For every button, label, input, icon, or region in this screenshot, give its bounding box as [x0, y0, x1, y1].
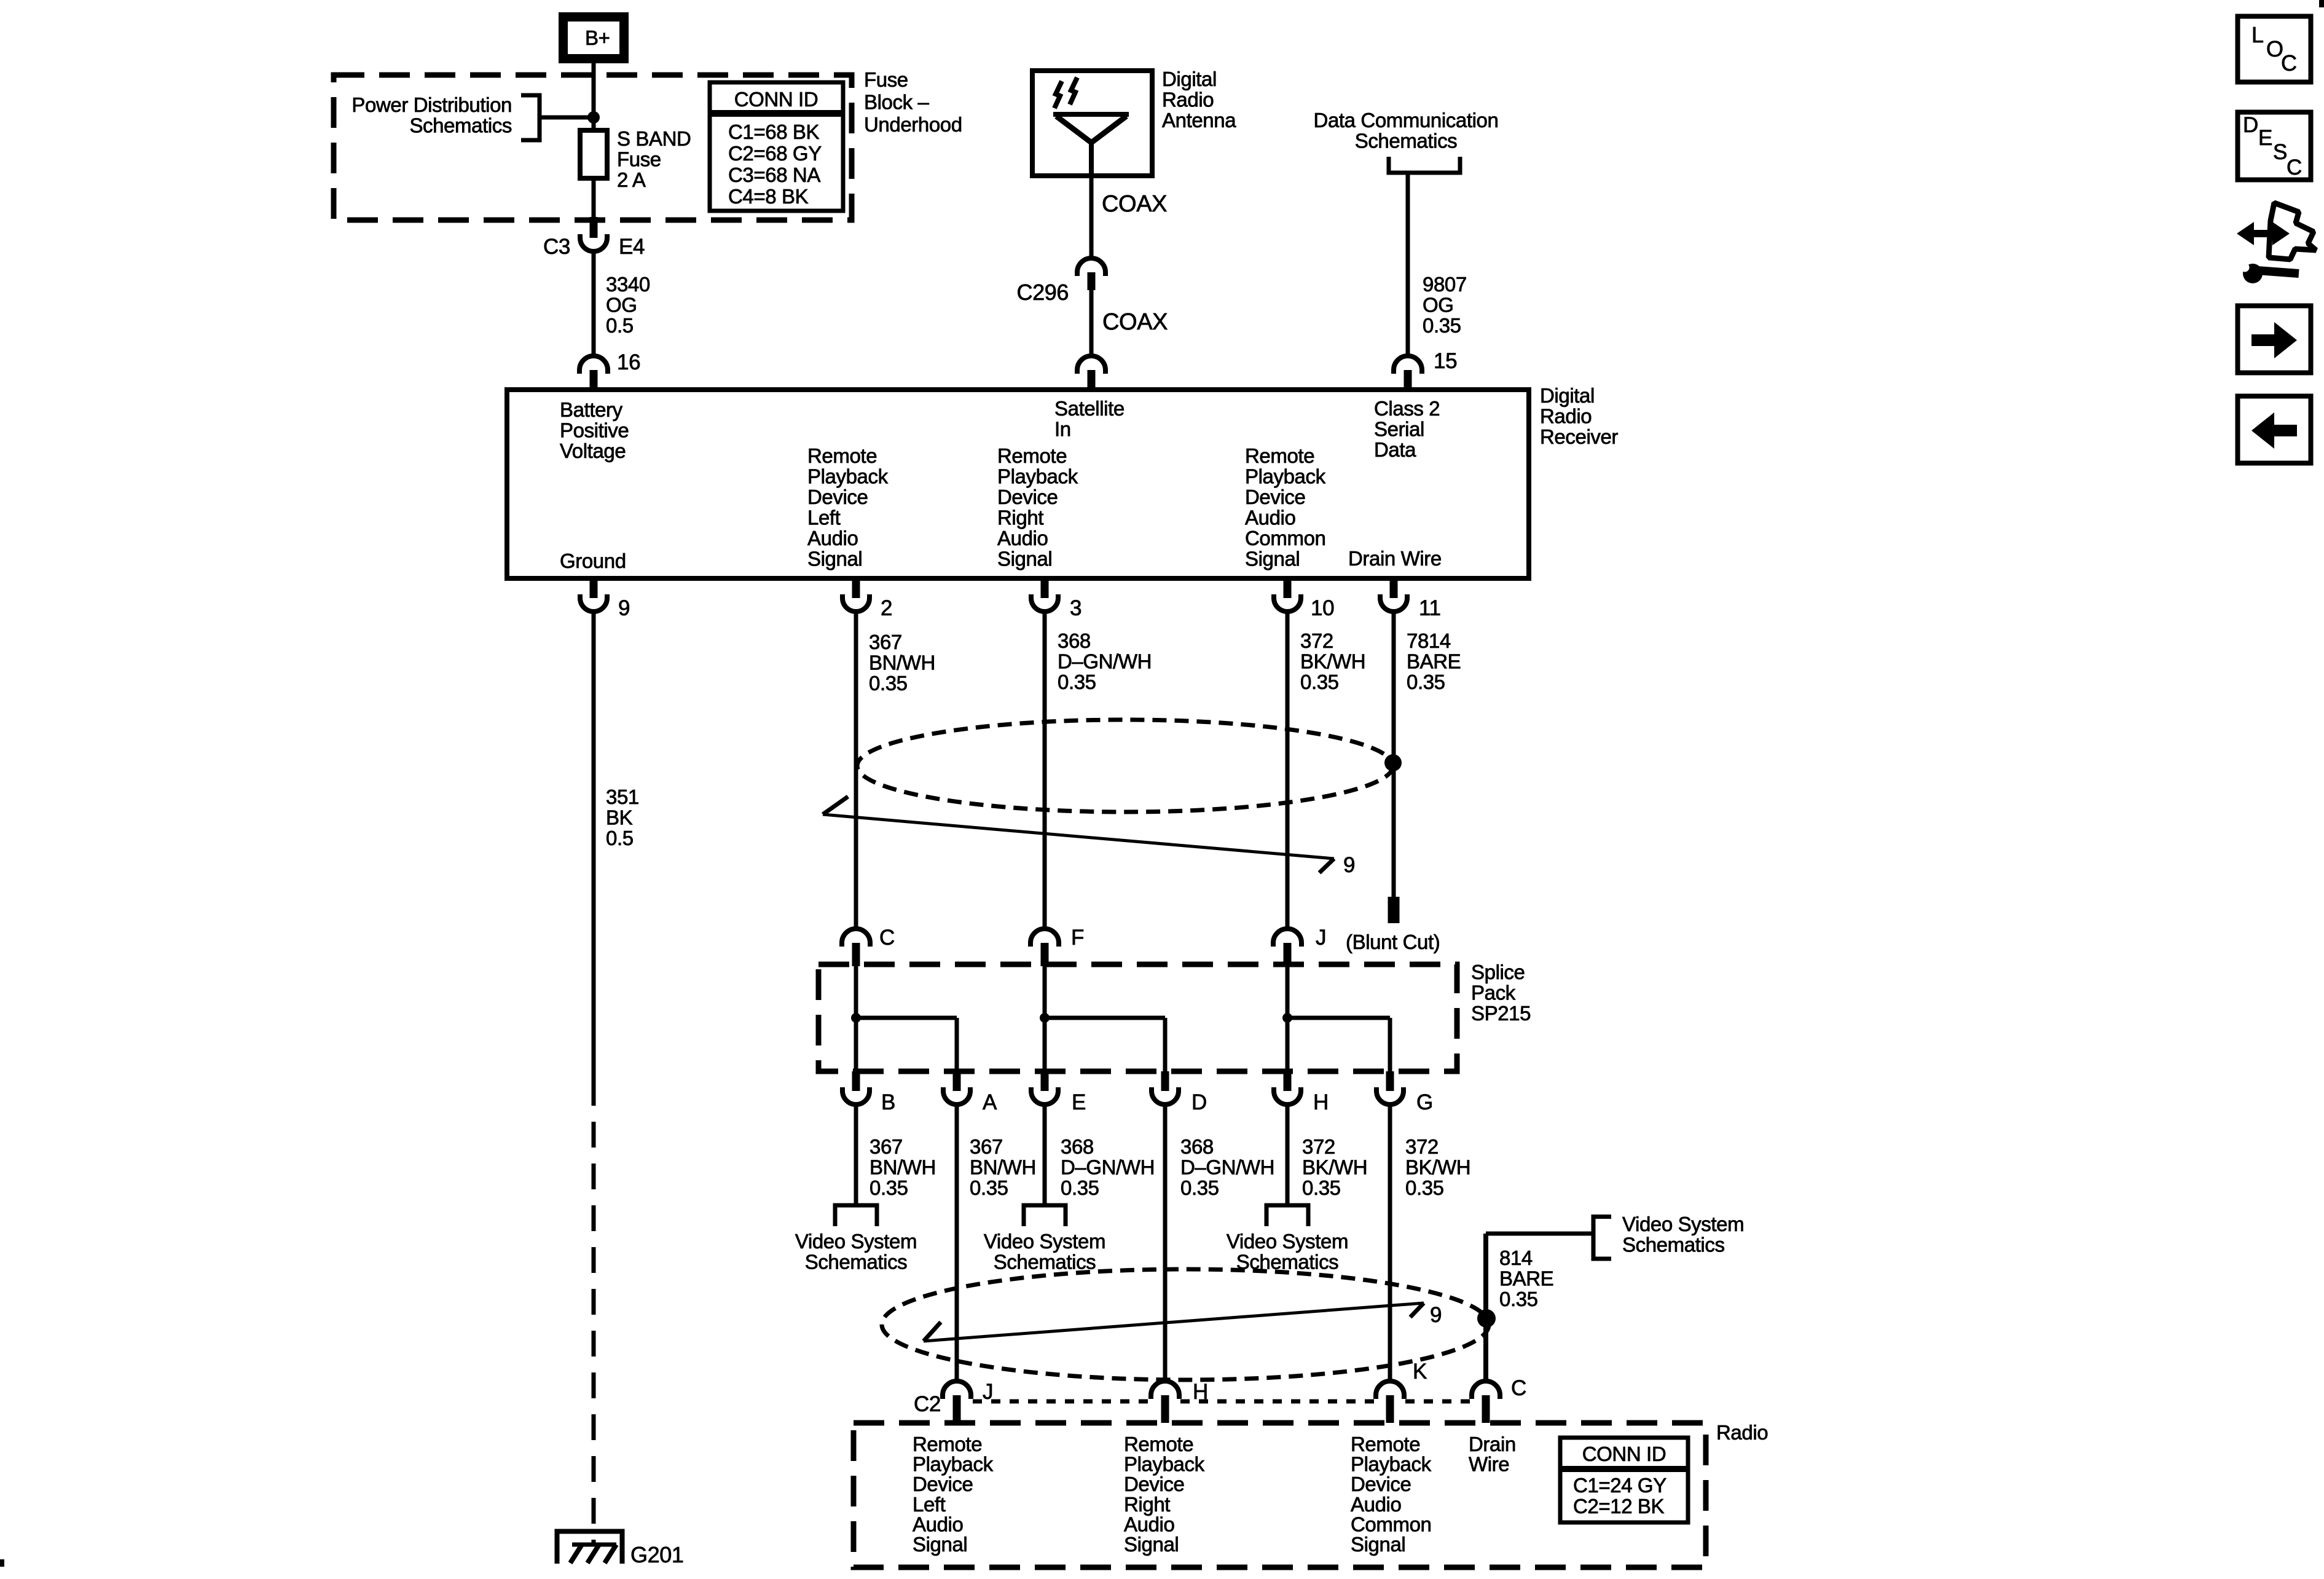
svg-text:3: 3	[1070, 596, 1082, 620]
svg-text:G201: G201	[630, 1542, 683, 1567]
svg-text:D–GN/WH: D–GN/WH	[1061, 1156, 1155, 1179]
svg-text:Schematics: Schematics	[1355, 130, 1458, 152]
svg-text:H: H	[1313, 1090, 1329, 1114]
svg-text:9: 9	[618, 596, 630, 620]
svg-text:BK: BK	[606, 806, 633, 829]
svg-text:2 A: 2 A	[617, 168, 646, 191]
svg-text:Schematics: Schematics	[409, 114, 512, 137]
svg-text:Playback: Playback	[913, 1453, 994, 1476]
receiver pin 16 connector	[579, 356, 608, 374]
svg-text:BK/WH: BK/WH	[1300, 650, 1365, 673]
svg-text:BN/WH: BN/WH	[970, 1156, 1036, 1179]
splice pack output connector H	[1284, 1071, 1292, 1091]
svg-text:Fuse: Fuse	[864, 68, 908, 91]
svg-text:COAX: COAX	[1102, 191, 1167, 217]
svg-text:Drain Wire: Drain Wire	[1348, 547, 1442, 570]
svg-text:0.5: 0.5	[606, 314, 634, 337]
svg-text:H: H	[1193, 1380, 1208, 1404]
splice wire pass-through at x=1700	[1043, 966, 1047, 1071]
splice pack output connector D	[1161, 1071, 1169, 1091]
svg-text:Splice: Splice	[1471, 961, 1525, 983]
svg-text:Signal: Signal	[1351, 1533, 1405, 1556]
svg-text:368: 368	[1180, 1135, 1214, 1158]
radio input connector K	[1376, 1381, 1404, 1399]
svg-text:D–GN/WH: D–GN/WH	[1058, 650, 1152, 673]
svg-text:A: A	[983, 1090, 997, 1114]
wire from B+ to fuse (circuit to S BAND fuse)	[592, 63, 596, 132]
svg-text:Radio: Radio	[1716, 1421, 1768, 1444]
svg-text:S BAND: S BAND	[617, 127, 691, 150]
svg-text:Remote: Remote	[1351, 1433, 1420, 1455]
svg-text:D–GN/WH: D–GN/WH	[1180, 1156, 1274, 1179]
splice node dot at x=2095	[1282, 1013, 1292, 1023]
twisted-cable arrow with note 9 (upper)	[823, 814, 1334, 859]
page corner mark (top right)	[2319, 0, 2324, 7]
icon box next arrow	[2238, 306, 2311, 373]
svg-text:Remote: Remote	[807, 444, 877, 467]
radio input connector C	[1472, 1381, 1500, 1399]
svg-text:0.35: 0.35	[1407, 671, 1445, 693]
svg-text:Serial: Serial	[1374, 418, 1424, 441]
wire 3340 OG 0.5 (fused battery feed)	[592, 251, 596, 356]
svg-text:Audio: Audio	[1124, 1513, 1174, 1535]
svg-text:E: E	[2258, 126, 2272, 150]
svg-text:11: 11	[1419, 596, 1441, 620]
svg-text:Audio: Audio	[913, 1513, 963, 1535]
radio connector C2 dotted gang line	[973, 1400, 1150, 1404]
svg-text:B: B	[881, 1090, 895, 1114]
wire 814 BARE 0.35 horizontal run	[1486, 1232, 1593, 1236]
svg-text:Battery: Battery	[560, 398, 623, 421]
svg-text:Class 2: Class 2	[1374, 397, 1440, 420]
svg-text:Signal: Signal	[807, 548, 862, 570]
svg-text:C2=68 GY: C2=68 GY	[728, 142, 822, 165]
fuse block - underhood dashed outline box	[334, 75, 852, 220]
svg-text:Schematics: Schematics	[994, 1251, 1096, 1274]
svg-text:Digital: Digital	[1540, 384, 1595, 407]
svg-text:Signal: Signal	[1124, 1533, 1179, 1556]
svg-text:367: 367	[869, 631, 902, 653]
video system off-page bracket at x=1393	[835, 1205, 877, 1226]
svg-text:0.35: 0.35	[970, 1176, 1008, 1199]
svg-text:Left: Left	[807, 506, 841, 529]
wire 368 D-GN/WH 0.35 (right audio, pin 3 to F)	[1043, 612, 1047, 930]
node: drain junction on shield (lower)	[1477, 1309, 1496, 1328]
svg-text:Wire: Wire	[1469, 1453, 1509, 1476]
svg-text:C296: C296	[1017, 280, 1069, 305]
svg-text:0.35: 0.35	[1058, 671, 1096, 693]
wire 367 BN/WH 0.35 (left audio, pin 2 to C)	[854, 612, 858, 930]
receiver pin 9 connector	[590, 578, 598, 598]
svg-text:C: C	[879, 926, 895, 950]
off-page reference bracket (Power Distribution)	[521, 95, 540, 140]
wire from splice to video system at x=1393	[854, 1105, 858, 1204]
splice pack input connector J	[1273, 929, 1301, 947]
svg-text:Remote: Remote	[1124, 1433, 1193, 1455]
svg-text:0.35: 0.35	[1180, 1176, 1219, 1199]
svg-text:Signal: Signal	[997, 548, 1052, 570]
svg-text:Audio: Audio	[1245, 506, 1295, 529]
svg-text:Remote: Remote	[913, 1433, 982, 1455]
blunt cut end of drain wire	[1388, 897, 1400, 923]
svg-text:Satellite: Satellite	[1054, 397, 1125, 420]
svg-text:814: 814	[1499, 1246, 1533, 1269]
video system off-page bracket at x=2095	[1266, 1205, 1308, 1226]
svg-text:367: 367	[970, 1135, 1003, 1158]
svg-text:Positive: Positive	[560, 419, 629, 442]
svg-text:2: 2	[881, 596, 892, 620]
svg-text:C: C	[2281, 50, 2297, 76]
svg-text:372: 372	[1300, 629, 1333, 652]
svg-text:Schematics: Schematics	[1236, 1251, 1339, 1274]
icon wrench and navigation arrows	[2269, 203, 2316, 259]
wire 9807 OG 0.35 (class 2 serial data)	[1406, 173, 1410, 356]
off-page reference bracket (Data Communication)	[1389, 157, 1460, 173]
svg-text:SP215: SP215	[1471, 1002, 1531, 1025]
svg-text:Schematics: Schematics	[805, 1251, 908, 1274]
svg-text:BK/WH: BK/WH	[1405, 1156, 1470, 1179]
svg-text:9: 9	[1343, 853, 1355, 877]
svg-text:Fuse: Fuse	[617, 148, 661, 171]
svg-text:Playback: Playback	[1124, 1453, 1205, 1476]
svg-text:Ground: Ground	[560, 549, 626, 572]
svg-text:Audio: Audio	[997, 527, 1048, 549]
svg-text:Radio: Radio	[1540, 405, 1592, 428]
svg-text:Playback: Playback	[1245, 465, 1326, 488]
svg-text:B+: B+	[585, 26, 610, 49]
svg-text:F: F	[1071, 926, 1084, 950]
svg-text:C: C	[2287, 156, 2302, 179]
svg-text:Playback: Playback	[1351, 1453, 1432, 1476]
splice pack input connector F	[1030, 929, 1059, 947]
wire 368 D-GN/WH to radio pin H	[1163, 1105, 1168, 1382]
svg-text:Voltage: Voltage	[560, 439, 626, 462]
svg-text:Underhood: Underhood	[864, 113, 962, 136]
svg-text:9807: 9807	[1423, 273, 1467, 296]
svg-text:In: In	[1054, 418, 1071, 441]
svg-text:Schematics: Schematics	[1622, 1234, 1725, 1256]
in-line connector C296	[1077, 258, 1105, 276]
svg-text:Playback: Playback	[807, 465, 889, 488]
svg-text:0.35: 0.35	[870, 1176, 908, 1199]
splice pack output connector A	[953, 1071, 961, 1091]
svg-text:Device: Device	[807, 486, 868, 508]
splice branch wire to x=2262	[1287, 1016, 1390, 1020]
svg-text:D: D	[2243, 113, 2258, 137]
svg-text:Common: Common	[1245, 527, 1325, 549]
svg-text:E4: E4	[619, 235, 645, 259]
off-page reference bracket (Video System, 814 drain)	[1593, 1217, 1611, 1259]
svg-text:0.35: 0.35	[1405, 1176, 1444, 1199]
svg-text:S: S	[2273, 140, 2287, 164]
svg-text:J: J	[983, 1380, 993, 1404]
svg-text:368: 368	[1058, 629, 1091, 652]
wire from Power Distribution bracket to fuse node	[541, 116, 594, 120]
wire 367 BN/WH to radio pin J	[955, 1105, 959, 1382]
splice wire pass-through at x=2095	[1286, 966, 1290, 1071]
svg-text:Left: Left	[913, 1493, 946, 1516]
svg-text:C1=68 BK: C1=68 BK	[728, 120, 820, 143]
wire from splice to video system at x=1700	[1043, 1105, 1047, 1204]
svg-text:OG: OG	[606, 294, 637, 317]
svg-text:0.35: 0.35	[1423, 314, 1461, 337]
svg-text:Data Communication: Data Communication	[1314, 109, 1499, 132]
svg-text:Video System: Video System	[984, 1230, 1105, 1253]
svg-text:Video System: Video System	[1227, 1230, 1348, 1253]
svg-text:Playback: Playback	[997, 465, 1078, 488]
wire 351 BK 0.5 ground (solid portion)	[592, 612, 596, 1080]
svg-text:Audio: Audio	[807, 527, 858, 549]
svg-text:Block –: Block –	[864, 91, 929, 114]
svg-text:C3: C3	[543, 235, 570, 259]
icon box DESC	[2238, 112, 2311, 180]
svg-text:Digital: Digital	[1162, 68, 1217, 90]
icon box back arrow	[2238, 396, 2311, 463]
svg-text:Device: Device	[1124, 1473, 1184, 1495]
svg-text:Remote: Remote	[1245, 444, 1314, 467]
svg-text:Audio: Audio	[1351, 1493, 1401, 1516]
svg-text:372: 372	[1302, 1135, 1335, 1158]
svg-text:J: J	[1316, 926, 1326, 950]
splice wire pass-through at x=1393	[854, 966, 858, 1071]
svg-text:372: 372	[1405, 1135, 1439, 1158]
svg-text:Device: Device	[1245, 486, 1305, 508]
splice pack output connector E	[1041, 1071, 1049, 1091]
power symbol B+ (battery positive)	[563, 17, 624, 59]
receiver satellite-in pin connector	[1077, 356, 1105, 374]
wire 372 BK/WH to radio pin K	[1388, 1105, 1392, 1382]
svg-text:Antenna: Antenna	[1162, 109, 1236, 132]
svg-text:COAX: COAX	[1102, 309, 1168, 335]
svg-text:Data: Data	[1374, 438, 1416, 461]
svg-text:368: 368	[1061, 1135, 1094, 1158]
svg-text:BK/WH: BK/WH	[1302, 1156, 1367, 1179]
wire from splice to video system at x=2095	[1286, 1105, 1290, 1204]
svg-text:0.35: 0.35	[1300, 671, 1339, 693]
svg-text:Radio: Radio	[1162, 89, 1214, 111]
splice pack output connector B	[852, 1071, 860, 1091]
wire 372 BK/WH 0.35 (audio common, pin 10 to J)	[1286, 612, 1290, 930]
svg-text:E: E	[1072, 1090, 1086, 1114]
svg-text:0.5: 0.5	[606, 827, 634, 849]
svg-text:9: 9	[1430, 1303, 1442, 1327]
svg-text:C2=12 BK: C2=12 BK	[1573, 1495, 1665, 1518]
COAX wire C296 to receiver	[1089, 290, 1094, 356]
svg-text:C3=68 NA: C3=68 NA	[728, 163, 820, 186]
receiver pin 2 connector	[852, 578, 860, 598]
splice branch wire to x=1557	[856, 1016, 957, 1020]
icon box LOC	[2238, 17, 2311, 82]
svg-text:Right: Right	[997, 506, 1043, 529]
splice node dot at x=1700	[1040, 1013, 1050, 1023]
svg-text:BARE: BARE	[1499, 1267, 1553, 1290]
svg-text:10: 10	[1311, 596, 1334, 620]
svg-text:C4=8 BK: C4=8 BK	[728, 185, 809, 208]
receiver pin 15 connector	[1394, 356, 1422, 374]
component box: Radio (dashed)	[854, 1423, 1706, 1567]
radio input connector J	[943, 1381, 971, 1399]
page mark (bottom left)	[0, 1559, 4, 1567]
svg-text:K: K	[1413, 1360, 1427, 1384]
svg-text:351: 351	[606, 786, 639, 808]
svg-text:Common: Common	[1351, 1513, 1431, 1535]
svg-text:OG: OG	[1423, 294, 1454, 317]
svg-text:C2: C2	[914, 1392, 941, 1416]
svg-text:CONN ID: CONN ID	[1582, 1443, 1666, 1465]
node: drain wire junction on shield (upper)	[1384, 754, 1402, 771]
in-line connector C3 terminal E4	[590, 217, 598, 238]
splice pack SP215 dashed box	[819, 964, 1457, 1071]
svg-text:Device: Device	[913, 1473, 973, 1495]
node junction dot at B+ / fuse / power-distribution tap	[587, 111, 600, 124]
svg-text:BN/WH: BN/WH	[870, 1156, 936, 1179]
svg-text:L: L	[2251, 22, 2264, 47]
svg-text:D: D	[1191, 1090, 1207, 1114]
video system off-page bracket at x=1700	[1024, 1205, 1066, 1226]
svg-text:0.35: 0.35	[869, 672, 908, 695]
svg-text:G: G	[1416, 1090, 1433, 1114]
svg-text:0.35: 0.35	[1302, 1176, 1341, 1199]
svg-text:(Blunt Cut): (Blunt Cut)	[1346, 931, 1440, 953]
svg-text:7814: 7814	[1407, 629, 1451, 652]
shield/twisted cable ellipse (upper)	[857, 720, 1393, 812]
svg-text:Device: Device	[1351, 1473, 1411, 1495]
COAX wire antenna to C296	[1089, 176, 1094, 258]
svg-text:C: C	[1511, 1376, 1526, 1400]
CONN ID table (fuse block connectors)	[710, 82, 843, 211]
CONN ID table (radio connectors)	[1560, 1438, 1688, 1522]
svg-text:C1=24 GY: C1=24 GY	[1573, 1474, 1666, 1497]
svg-text:Right: Right	[1124, 1493, 1170, 1516]
svg-text:16: 16	[617, 350, 640, 374]
svg-text:Drain: Drain	[1469, 1433, 1516, 1455]
wire 814 BARE 0.35 vertical run	[1483, 1234, 1488, 1382]
svg-text:Remote: Remote	[997, 444, 1067, 467]
svg-text:Signal: Signal	[1245, 548, 1300, 570]
digital radio antenna component box	[1032, 71, 1152, 176]
splice node dot at x=1393	[851, 1013, 861, 1023]
svg-text:3340: 3340	[606, 273, 650, 296]
wire 351 BK 0.5 ground (dashed continuation)	[592, 1080, 596, 1544]
splice branch wire to x=1896	[1045, 1016, 1165, 1020]
receiver pin 11 connector	[1390, 578, 1398, 598]
svg-text:Pack: Pack	[1471, 982, 1516, 1004]
antenna symbol	[1053, 112, 1129, 117]
shield/twisted cable ellipse (lower)	[882, 1269, 1489, 1380]
svg-text:15: 15	[1434, 349, 1457, 373]
antenna signal marks (RF waves)	[1054, 81, 1062, 108]
splice pack input connector C	[842, 929, 870, 947]
svg-text:Power Distribution: Power Distribution	[351, 93, 512, 116]
svg-text:BN/WH: BN/WH	[869, 652, 935, 674]
svg-text:Receiver: Receiver	[1540, 425, 1618, 448]
svg-text:0.35: 0.35	[1499, 1288, 1538, 1310]
radio input connector H	[1151, 1381, 1179, 1399]
receiver pin 10 connector	[1284, 578, 1292, 598]
svg-text:Signal: Signal	[913, 1533, 967, 1556]
twisted-cable arrow with note 9 (lower)	[924, 1303, 1424, 1341]
component box: Digital Radio Receiver	[507, 390, 1529, 578]
svg-text:0.35: 0.35	[1061, 1176, 1099, 1199]
receiver pin 3 connector	[1041, 578, 1049, 598]
svg-text:367: 367	[870, 1135, 903, 1158]
svg-text:CONN ID: CONN ID	[734, 88, 819, 111]
fuse F1 S BAND 2A symbol	[592, 132, 596, 218]
svg-text:Video System: Video System	[1622, 1213, 1744, 1235]
splice pack output connector G	[1386, 1071, 1394, 1091]
svg-text:Video System: Video System	[795, 1230, 917, 1253]
wire 7814 BARE 0.35 drain wire	[1392, 612, 1396, 897]
svg-text:BARE: BARE	[1407, 650, 1461, 673]
svg-text:Device: Device	[997, 486, 1058, 508]
ground G201 symbol	[557, 1532, 622, 1564]
